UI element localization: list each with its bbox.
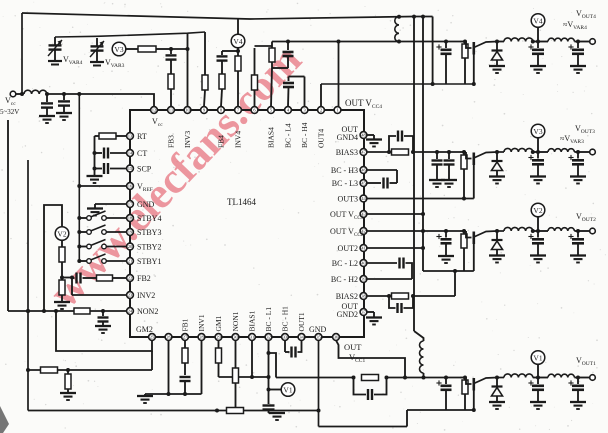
pin label GND [137,200,155,209]
IC pin 6 (top) [251,107,258,114]
node ch1 out cap [576,376,580,380]
pin label FB3 [167,135,176,148]
ground C45 [530,66,546,73]
IC pin 41 (right) [360,245,367,252]
svg-text:5~32V: 5~32V [0,108,19,116]
wire BC-L3 lead [367,182,381,184]
ground C16 [570,402,586,409]
wire ch4 V4 stub [536,28,540,44]
wire INV1 drop [201,341,203,395]
wire V3 to R31 [126,48,138,50]
wire top rail A [22,13,433,19]
resistor R41 [235,56,241,107]
node V2 divider [60,276,64,280]
svg-text:19: 19 [128,230,133,235]
resistor R-NON1 [233,341,239,413]
IC pin 37 (right) [360,309,367,316]
ground C25 [530,256,546,263]
node input C [77,92,81,96]
wire bus A to ch1 rail [422,373,426,380]
wire OUT GND2 ground lead [367,312,374,317]
IC pin 18 (left) [127,215,134,222]
capacitor C-BIAS4 [283,42,294,69]
svg-text:29: 29 [216,335,221,340]
resistor R22 [59,278,65,303]
test point V1 output [531,351,545,365]
wire BIAS1 drop [250,341,254,380]
wire rail B (varicap line) [55,32,205,37]
pin label INV1 [197,314,206,331]
IC pin 1 (top) [334,107,341,114]
pin label Vcc [152,117,163,128]
capacitor C34a [432,152,443,180]
test point V3 (feedback) [112,42,126,56]
pin label OUT Vcc1 (bottom right) [344,342,365,364]
IC pin 38 (right) [360,293,367,300]
IC pin 2 (top) [318,107,325,114]
svg-text:22: 22 [128,276,133,281]
svg-text:BC - H2: BC - H2 [331,275,358,284]
wire BC-H3 lead [367,170,397,183]
wire OUT Vcc1 feed [336,340,407,379]
wire V1 link [267,388,282,392]
pin label OUT GND4 [337,125,358,142]
wire BC-H2 lead [367,278,412,280]
transistor Q2 [460,231,497,244]
ground C-OUT1 [269,413,285,420]
wire pin6 top link [255,45,273,47]
wire ch1 tie corner [406,410,408,427]
svg-text:V1: V1 [283,385,292,394]
pin label Vref [137,182,153,193]
wire ch1 collector tie [407,409,474,411]
transistor Q4 [460,42,497,55]
node INV3 junction [186,47,190,51]
capacitor C-CT [93,148,127,159]
ground C34a [429,180,445,187]
inductor L42 [548,38,578,41]
IC pin 5 (top) [268,107,275,114]
node ch3 LC [531,150,548,154]
node input A [45,92,49,96]
pin label FB1 [181,318,190,331]
IC pin 13 (left) [127,133,134,140]
svg-text:BIAS4: BIAS4 [267,127,276,148]
inductor L-bus (ch1 choke) [420,341,424,373]
svg-text:39: 39 [361,277,366,282]
IC pin 43 (right) [360,211,367,218]
svg-text:41: 41 [361,246,366,251]
node ch3 caps [435,150,451,154]
pin label BC - L1 [264,307,273,332]
svg-text:36: 36 [334,335,339,340]
svg-text:FB4: FB4 [217,135,226,148]
resistor R9 [202,75,208,107]
resistor R31 [138,46,171,52]
svg-text:INV3: INV3 [183,131,192,148]
IC pin 14 (left) [127,150,134,157]
label VVAR3 [105,58,125,69]
wire Q1 base drop [472,390,476,413]
svg-text:GND: GND [309,325,327,334]
svg-text:33: 33 [283,335,288,340]
svg-text:27: 27 [183,335,188,340]
node ch4 LC [531,40,548,44]
wire V2 top link [42,205,62,313]
pin label OUT4 [317,129,326,148]
IC pin 17 (left) [127,201,134,208]
test point V2 (feedback) [55,227,69,241]
svg-text:45: 45 [361,181,366,186]
inductor L11 [504,374,533,378]
resistor R14 [362,375,389,381]
ground OUT GND4 [366,140,382,147]
node ch2 out cap [576,229,580,233]
wire BC-L2 lead [367,262,397,264]
resistor R-FB1 [182,341,188,376]
ground D2 [489,256,505,263]
capacitor C-NON2 [98,311,109,326]
node base line x432 [431,82,435,86]
svg-text:BIAS2: BIAS2 [336,292,358,301]
test point V4 (feedback) [231,34,245,48]
wire GM2 bottom link [151,351,153,370]
svg-text:38: 38 [361,294,366,299]
resistor R-BL1 [41,367,58,373]
pin label BC - L3 [332,179,358,188]
pin label SCP [137,165,152,174]
svg-text:11: 11 [169,108,174,113]
pin label FB4 [217,135,226,148]
label VOUT1 [576,356,596,367]
IC pin 16 (left) [127,183,134,190]
capacitor C41 [217,51,228,74]
ground C36 [570,177,586,184]
IC pin 34 (bottom) [298,334,305,341]
wire OUT GND4 ground lead [367,135,374,139]
IC pin 33 (bottom) [282,334,289,341]
capacitor C-BC3 [384,178,398,189]
inductor L31 [504,148,533,152]
switch S2 (STBY2) [77,240,126,249]
svg-text:25: 25 [150,335,155,340]
capacitor C46 [568,42,584,67]
wire NON2 lead [8,309,74,313]
resistor R-BIAS2 [392,293,409,299]
svg-text:V1: V1 [533,353,542,362]
ground D3 [489,177,505,184]
wire rail B drop to pin 9 [204,32,206,75]
capacitor C34b [444,152,455,180]
pin label OUT1 [297,312,306,331]
svg-text:BC - H4: BC - H4 [300,122,309,148]
svg-text:21: 21 [128,259,133,264]
capacitor C-OUT1 [263,406,276,414]
svg-text:15: 15 [128,166,133,171]
svg-text:V3: V3 [114,45,123,54]
ground D4 [489,66,505,73]
switch S4 (STBY4) [77,211,126,220]
svg-text:CT: CT [137,149,147,158]
node NON2 cap [101,309,105,313]
capacitor C36 [568,152,584,177]
wire ch4 rail [272,41,504,43]
capacitor C15 [528,378,544,403]
svg-text:BC - L4: BC - L4 [284,123,293,148]
capacitor C-in1 [41,94,53,116]
diode D4 [492,42,503,67]
IC pin 44 (right) [360,195,367,202]
IC pin 4 (top) [285,107,292,114]
IC pin 9 (top) [201,107,208,114]
pin label STBY4 [137,214,161,223]
node ch4 out cap [576,40,580,44]
svg-text:47: 47 [361,150,366,155]
transistor Q3 [460,152,497,165]
IC pin 32 (bottom) [265,334,272,341]
svg-text:BC - H1: BC - H1 [281,306,290,332]
wire OUT Vcc2 / ch2 rail [367,230,504,232]
label VOUT3 [560,124,595,145]
resistor R-NON2 [74,308,127,314]
pin label INV3 [183,131,192,148]
resistor R-bot [227,408,244,414]
ground C46 [570,66,586,73]
IC pin 47 (right) [360,149,367,156]
inductor L12 [548,374,578,377]
wire ch1 ground run [319,426,408,428]
pin label BIAS1 [248,310,257,331]
capacitor C31 [166,49,177,74]
IC pin 15 (left) [127,165,134,172]
varactor VVAR4 [48,37,62,65]
svg-text:STBY2: STBY2 [137,243,161,252]
pin label OUT2 [338,244,358,253]
svg-text:17: 17 [128,202,133,207]
resistor R-RT [95,133,127,139]
IC pin 48 (right) [360,132,367,139]
svg-text:V4: V4 [233,37,242,46]
resistor R32 [168,74,174,107]
svg-text:30: 30 [233,335,238,340]
IC pin 30 (bottom) [232,334,239,341]
pin label OUT Vcc4 (top right) [345,98,382,110]
IC pin 46 (right) [360,167,367,174]
pin label GND (bottom) [309,325,327,334]
ground C15 [530,402,546,409]
capacitor C-BC1 [285,341,302,358]
pin label OUT Vcc2 [330,227,364,238]
inductor L32 [548,149,578,152]
capacitor C16 [568,378,584,403]
switch S3 (STBY3) [77,225,126,234]
wire V4 net to C41 [222,50,238,52]
wire ch2 collector tie [423,270,474,272]
capacitor C44 electrolytic [436,42,451,85]
pin label NON1 [231,311,240,331]
resistor R-BL2 [65,370,71,393]
node ch4 diode [495,40,499,44]
node ch2 LC [531,229,548,233]
node input B [62,92,66,96]
wire BIAS2 lead [367,294,391,298]
pin label FB2 [137,274,151,283]
wire GND lead [95,204,127,208]
IC pin 36 (bottom) [333,334,340,341]
wire V4 top stub [237,19,239,34]
watermark www.elecfans.com [40,35,311,317]
svg-text:44: 44 [361,196,366,201]
node ch1 LC [533,376,548,380]
wire BC-L4 tie [289,77,305,107]
svg-text:46: 46 [361,168,366,173]
IC pin 24 (left) [127,308,134,315]
svg-text:V3: V3 [533,127,542,136]
resistor R21 [59,247,65,278]
wire bus B [422,17,424,232]
wire ch3 V3 stub [536,138,540,154]
terminal VOUT3 [578,149,595,155]
node ch4 rail C-BIAS4 [286,40,290,44]
IC pin 3 (top) [301,107,308,114]
svg-text:GM2: GM2 [136,325,153,334]
node BIAS2 right [411,294,415,298]
svg-text:28: 28 [199,335,204,340]
wire input rail to IC [47,94,154,107]
ground D1 [489,402,505,409]
pin label NON2 [137,307,158,316]
wire OUT3 lead [367,198,474,200]
pin label BC - H2 [331,275,358,284]
wire BIAS3 lead [367,150,391,154]
svg-text:14: 14 [128,151,133,156]
wire BIAS4 tie [271,68,288,107]
wire FB2 to INV2 [72,278,127,296]
ground C26 [570,256,586,263]
svg-text:37: 37 [361,310,366,315]
wire input riser x22 [20,13,24,96]
terminal VOUT4 [578,39,595,45]
capacitor C-FB1 [180,377,191,396]
test point V1 (feedback) [281,383,295,397]
scan blob bottom-left corner [0,406,9,433]
svg-text:INV2: INV2 [137,291,155,300]
switch S1 (STBY1) [77,254,126,263]
wire rail A drop x432 [432,17,434,85]
wire ch1 V1 stub [537,364,539,377]
svg-text:TL1464: TL1464 [227,197,256,207]
IC pin 8 (top) [218,107,225,114]
wire bus A [414,17,424,342]
ground OUT GND2 [366,318,382,325]
pin label BC - H1 [281,306,290,332]
resistor R-FB2 [97,275,127,281]
node ch1 diode [495,376,499,380]
ground C35 [530,177,546,184]
ground C34b [441,180,457,187]
wire BIAS2 to tie [413,269,457,296]
svg-text:GND: GND [137,200,155,209]
pin label STBY2 [137,243,161,252]
label Vcc 5~32V [0,96,19,116]
IC pin 26 (bottom) [165,334,172,341]
pin label BC - H4 [300,122,309,148]
node ch4 rail T1 [397,40,401,44]
IC pin 35 (bottom) [315,334,322,341]
svg-text:12: 12 [152,108,157,113]
wire bottom-left net y370 [26,368,152,372]
ground C-in2 [56,113,72,120]
svg-text:INV1: INV1 [197,314,206,331]
svg-text:STBY1: STBY1 [137,257,161,266]
inductor L21 [504,227,533,231]
capacitor C-SCP [93,163,127,174]
capacitor C24 [436,231,451,256]
IC pin 7 (top) [235,107,242,114]
IC pin 25 (bottom) [149,334,156,341]
wire bottom rail y410 [28,409,321,413]
ground C24 [438,256,454,263]
wire GM2 loop [56,311,152,351]
pin label GM1 [214,315,223,331]
svg-text:10: 10 [185,108,190,113]
capacitor C-BC4 [283,77,294,107]
pin label OUT GND2 [337,302,358,319]
IC pin 31 (bottom) [249,334,256,341]
node ch4 cap1 [444,40,448,44]
svg-text:OUT2: OUT2 [338,244,358,253]
wire OUT1 drop [268,341,270,405]
inductor L41 [504,38,533,42]
ground C-NON2 [95,326,111,333]
node FB3 net [169,47,173,51]
wire left edge drop x8 [7,120,9,311]
svg-text:INV4: INV4 [234,131,243,148]
ground R-BL2 [60,393,76,400]
test point V3 output [531,124,545,138]
resistor R44 [462,40,468,85]
svg-text:BC - L3: BC - L3 [332,179,358,188]
wire V2 to R21 [61,240,63,247]
svg-text:31: 31 [250,335,255,340]
svg-text:V2: V2 [533,206,542,215]
pin label BC - L2 [332,259,358,268]
wire RT feed rail [94,136,96,176]
resistor R-BIAS3 [392,149,409,155]
transistor Q1 [460,378,497,391]
node ch1 cap1 [444,376,448,380]
wire V4 bottom [237,48,239,56]
svg-text:BC - H3: BC - H3 [331,166,358,175]
svg-text:NON2: NON2 [137,307,158,316]
node rail A / bus B [421,15,425,19]
IC pin 11 (top) [168,107,175,114]
svg-text:13: 13 [128,134,133,139]
pin label BIAS3 [336,148,358,157]
wire bottom net y394 [145,393,202,395]
wire OUT4 to base line [321,84,474,107]
resistor R-BIAS4 [269,46,275,68]
IC pin 22 (left) [127,275,134,282]
svg-text:16: 16 [128,184,133,189]
label VVAR4 [63,55,83,66]
pin label INV4 [234,131,243,148]
node ch2 cap1 [444,229,448,233]
pin label INV2 [137,291,155,300]
capacitor C25 [528,231,544,256]
wire Vref rail riser x79 [78,94,80,261]
ground GND pin [87,209,103,216]
